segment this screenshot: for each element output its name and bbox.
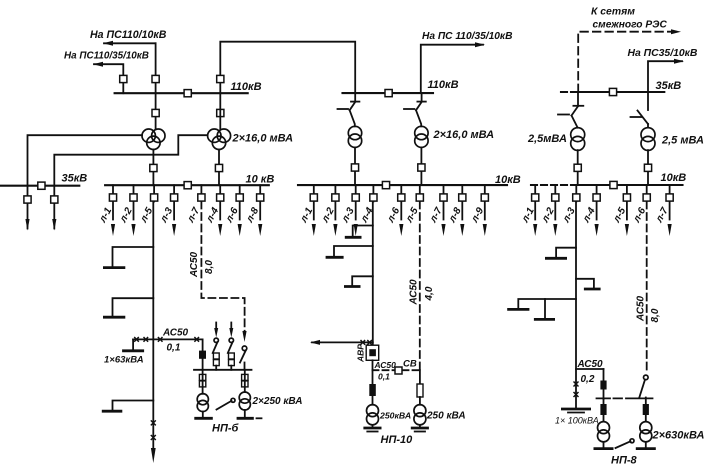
branch line АС50 0,1 (sub1) xyxy=(133,337,203,342)
110kV tie wire to substation 2 xyxy=(220,42,355,93)
feeder Л-7 (sub2) xyxy=(427,185,447,236)
square switch on СВ link xyxy=(395,367,402,374)
svg-text:На ПС110/10кВ: На ПС110/10кВ xyxy=(90,29,167,41)
label line to ПС110/10кВ xyxy=(90,29,167,41)
col A closed fuse xyxy=(199,351,206,359)
net label 10кВ (sub3) xyxy=(661,172,687,184)
НП-8 switch blade on Л-6 xyxy=(639,380,645,398)
col D wire to bar xyxy=(244,363,246,370)
feeder Л-8 (sub1) xyxy=(244,185,264,236)
dashed tie wire to adjacent network with right arrow xyxy=(578,29,681,92)
net label 10кВ (sub2) xyxy=(495,174,521,186)
wire T4 to 10kV bus xyxy=(420,147,422,185)
feeder Л-6 head (sub3, dashed) xyxy=(631,185,650,225)
net label 110кВ (sub2) xyxy=(428,79,459,91)
breaker square T1-10kV xyxy=(150,164,157,171)
value label АС50 (branch sub3) xyxy=(577,359,604,370)
svg-text:АС50: АС50 xyxy=(374,360,397,370)
35kV bus substation 3 (left part dashed) xyxy=(561,91,664,93)
node label НП-8 xyxy=(611,455,638,467)
НП-6 LV bar xyxy=(194,369,252,371)
svg-text:НП-8: НП-8 xyxy=(611,455,638,467)
disconnector QS below bus x=220.3 xyxy=(217,109,224,116)
svg-text:35кВ: 35кВ xyxy=(656,80,682,92)
svg-text:2×16,0 мВА: 2×16,0 мВА xyxy=(433,129,495,141)
wire СВ link to НП-10 right xyxy=(419,370,421,384)
svg-text:8,0: 8,0 xyxy=(650,308,661,322)
col D wire to bottom bar xyxy=(244,410,246,418)
transformer НП-6 D (2x250) xyxy=(239,392,250,410)
wire to НП-8 left transformer xyxy=(603,399,605,422)
tap 1 of Л-5 trunk xyxy=(103,247,153,268)
value label 2x250 кВА xyxy=(252,396,303,407)
col C wire to bar xyxy=(230,366,232,370)
transformer НП-10 right (250 кВА) xyxy=(414,405,426,425)
svg-text:2,5 мВА: 2,5 мВА xyxy=(661,135,704,147)
tap 1 of Л-4 trunk xyxy=(345,226,373,238)
value label 2x16,0 мВА (sub2) xyxy=(433,129,495,141)
tap 2 of Л-3 trunk (right) xyxy=(576,279,601,289)
col C incoming arrow xyxy=(229,323,233,338)
label line to ПС110/35/10кВ xyxy=(64,51,149,62)
НП-8 hinge circle on Л-6 xyxy=(644,375,649,380)
trunk end arrow (sub1) xyxy=(151,448,156,463)
value label АС50 (СВ link) xyxy=(374,360,397,370)
value label 1x100кВА xyxy=(555,416,599,426)
НП-6 cluster: incoming arrow col D xyxy=(242,331,246,342)
value label 2,5мВА (left) xyxy=(527,133,567,145)
value label АС50 (Л-6, rotated) xyxy=(636,295,647,322)
svg-text:АС50: АС50 xyxy=(189,251,200,278)
wire to ПС110/10кВ with left arrow xyxy=(103,41,156,46)
value label 0,1 (СВ link) xyxy=(378,372,390,382)
bus section switch on 10kV bus (sub3) xyxy=(610,181,617,188)
svg-text:смежного РЭС: смежного РЭС xyxy=(593,20,668,31)
35kV feeder arrow x=27.5 xyxy=(25,219,29,231)
transformer НП-6 A (2x250) xyxy=(197,394,208,412)
col D fuse below bar xyxy=(242,374,248,387)
wire to НП-10 left transformer xyxy=(372,396,374,405)
svg-text:2,5мВА: 2,5мВА xyxy=(527,133,567,145)
disconnector QS above bus x=155.6 xyxy=(152,75,159,82)
svg-text:0,1: 0,1 xyxy=(167,343,181,354)
feeder Л-9 (sub2) xyxy=(469,185,488,236)
feeder Л-4 trunk head (sub2) xyxy=(358,185,377,225)
value label АС50 (Л-7, rotated) xyxy=(189,251,200,278)
feeder Л-3 (sub1) xyxy=(158,185,178,236)
НП-8 LV bar xyxy=(597,397,653,399)
svg-text:НП-10: НП-10 xyxy=(381,434,414,446)
Л-4 trunk wire (sub2) xyxy=(372,202,374,346)
wire below АВР xyxy=(372,360,374,384)
value label 4,0 (Л-5, rotated) xyxy=(424,286,435,301)
value label 0,2 (branch sub3) xyxy=(581,374,595,385)
label К сетям смежного РЭС xyxy=(591,7,667,31)
feeder Л-6 (sub2) xyxy=(385,185,405,236)
svg-text:250кВА: 250кВА xyxy=(379,411,411,421)
svg-text:АС50: АС50 xyxy=(162,328,189,339)
tap 3 of Л-4 trunk xyxy=(344,276,373,286)
value label АС50 (branch sub1) xyxy=(162,328,189,339)
col B fuse xyxy=(213,353,219,366)
svg-text:СВ: СВ xyxy=(403,359,417,370)
net label 35кВ (sub3) xyxy=(656,80,682,92)
label line to ПС35/10кВ xyxy=(628,48,698,59)
tap to 1x63кВА transformer point xyxy=(122,339,144,350)
10kV bus substation 1 xyxy=(105,184,269,186)
wire branch corner into НП-8 left col xyxy=(603,369,605,399)
value label 2x630кВА xyxy=(652,430,705,442)
feeder Л-5 (sub3) xyxy=(611,185,631,236)
col A wire to transformer xyxy=(202,370,204,394)
svg-text:На ПС35/10кВ: На ПС35/10кВ xyxy=(628,48,698,59)
node label НП-10 xyxy=(381,434,414,446)
col C hinge circle xyxy=(229,338,233,342)
Л-6 dashed overhead line АС50 8,0 xyxy=(646,202,648,373)
tap 2 of Л-5 trunk xyxy=(103,298,153,317)
feeder Л-7 head (sub1, dashed line) xyxy=(185,185,205,225)
disconnector left leg (sub2) xyxy=(338,93,360,126)
svg-text:АС50: АС50 xyxy=(577,359,604,370)
АВР device box xyxy=(366,345,379,360)
closed fuse НП-8 right below bar xyxy=(643,404,649,415)
col B wire to bar xyxy=(215,366,217,370)
svg-text:110кВ: 110кВ xyxy=(428,79,459,91)
svg-text:10кВ: 10кВ xyxy=(495,174,521,186)
svg-text:8,0: 8,0 xyxy=(204,260,215,274)
breaker square T3 xyxy=(351,164,358,171)
svg-text:2×630кВА: 2×630кВА xyxy=(652,430,705,442)
col D bottom bar with dashed stub xyxy=(237,417,263,420)
wire T1 to 10kV bus xyxy=(152,150,154,186)
feeder Л-2 (sub3) xyxy=(539,185,558,236)
svg-text:0,2: 0,2 xyxy=(581,374,595,385)
feeder Л-3 trunk head (sub3) xyxy=(560,185,579,225)
feeder Л-5 trunk head (sub1) xyxy=(138,185,158,225)
feeder Л-6 (sub1) xyxy=(223,185,243,236)
svg-text:250 кВА: 250 кВА xyxy=(426,411,466,422)
feeder Л-3 (sub2) xyxy=(339,185,359,236)
transformer T3 (two-winding, sub2 left) xyxy=(348,126,361,147)
svg-text:НП-б: НП-б xyxy=(212,423,240,435)
feeder Л-2 (sub1) xyxy=(117,185,137,236)
svg-text:110кВ: 110кВ xyxy=(231,81,262,93)
wire riser x=220.3 down to transformer xyxy=(219,93,221,129)
label line to ПС 110/35/10кВ xyxy=(422,31,512,42)
10kV bus substation 3 (left part dashed) xyxy=(531,184,683,186)
closed fuse НП-8 left below bar xyxy=(600,404,606,415)
disconnector QS above bus x=220.3 xyxy=(217,75,224,82)
col C fuse xyxy=(229,353,235,366)
col A fuse below bar xyxy=(199,374,205,387)
wire to ground НП-10 right xyxy=(419,425,421,428)
wire to bottom bar НП-8 left xyxy=(603,442,605,448)
svg-text:2×16,0 мВА: 2×16,0 мВА xyxy=(232,133,294,145)
value label 2,5 мВА (right) xyxy=(661,135,704,147)
Л-5 dashed overhead line АС50 4,0 xyxy=(419,202,421,371)
svg-text:АС50: АС50 xyxy=(409,279,420,306)
col B incoming arrow xyxy=(214,323,218,338)
wire T5 to 10kV bus xyxy=(577,150,579,185)
col A wire to bottom bar xyxy=(202,412,204,418)
transformer T1 (three-winding) xyxy=(142,129,165,150)
x-marks on Л-3 trunk end xyxy=(574,382,579,398)
svg-text:АВР: АВР xyxy=(356,344,366,363)
svg-text:2×250 кВА: 2×250 кВА xyxy=(252,396,303,407)
35kV feeder switch x=27.5 xyxy=(24,196,31,203)
wire to НП-8 right transformer xyxy=(645,415,647,422)
bus section switch on 35kV bus xyxy=(38,182,45,189)
net label 110кВ xyxy=(231,81,262,93)
svg-text:1×63кВА: 1×63кВА xyxy=(104,355,144,366)
35kV feeder arrow x=54.3 xyxy=(52,219,56,231)
value label 2x16,0 мВА xyxy=(232,133,294,145)
feeder Л-5 head (sub2, dashed) xyxy=(403,185,423,225)
35kV winding wire of T1 xyxy=(28,135,143,228)
СВ dashed link xyxy=(373,369,420,371)
wire to ground НП-10 left xyxy=(372,425,374,428)
col D switch blade xyxy=(240,351,246,363)
value label 250 кВА (right) xyxy=(426,411,466,422)
wire riser x=155.6 (110kV) xyxy=(155,43,157,129)
bottom bar НП-8 right xyxy=(636,447,656,450)
value label АС50 (Л-5, rotated) xyxy=(409,279,420,306)
col C switch blade xyxy=(228,342,233,353)
feeder Л-1 (sub3) xyxy=(519,185,538,236)
feeder Л-7 (sub3) xyxy=(653,185,673,236)
transformer НП-8 right xyxy=(640,422,652,442)
disconnector QS on ПС110/35/10кВ feeder xyxy=(120,75,127,82)
tap 3 of Л-5 trunk xyxy=(102,401,154,412)
transformer НП-10 left (250кВА) xyxy=(367,405,379,425)
wire to bottom bar НП-8 right xyxy=(645,442,647,448)
label СВ xyxy=(403,359,417,370)
wire T2 to 10kV bus xyxy=(218,150,220,186)
value label 0,1 (branch sub1) xyxy=(167,343,181,354)
wire T6 to 10kV bus xyxy=(647,150,649,185)
35kV bus substation 1 xyxy=(0,185,79,187)
svg-text:10кВ: 10кВ xyxy=(661,172,687,184)
transformer T4 (two-winding, sub2 right) xyxy=(415,126,428,147)
wire to ПС 110/35/10кВ with right arrow xyxy=(421,42,485,93)
breaker square T4 xyxy=(418,164,425,171)
ground symbol НП-10 left xyxy=(363,428,381,432)
feeder Л-1 (sub1) xyxy=(97,185,117,236)
transformer T6 (sub3 right, 2,5 мВА) xyxy=(641,128,655,151)
open fuse НП-10 right xyxy=(417,384,423,397)
tie wire with left arrow at НП-10 xyxy=(310,340,373,345)
breaker square T6 xyxy=(644,164,651,171)
feeder Л-8 (sub2) xyxy=(446,185,465,236)
feeder Л-4 (sub1) xyxy=(204,185,224,236)
35kV feeder switch x=54.3 xyxy=(51,196,58,203)
110kV bus substation 1 xyxy=(115,92,248,94)
tap 1 of Л-3 trunk xyxy=(545,248,576,259)
closed fuse НП-10 left xyxy=(369,384,376,396)
wire T3 to 10kV bus xyxy=(354,147,356,185)
node label НП-б xyxy=(212,423,240,435)
НП-8 open point switch blade xyxy=(616,439,635,448)
value label 8,0 (Л-7, rotated) xyxy=(204,260,215,274)
svg-text:0,1: 0,1 xyxy=(378,372,390,382)
tap 3 of Л-3 trunk (left, double) xyxy=(507,299,576,319)
wire to ПС110/35/10кВ with left arrow xyxy=(93,62,123,93)
svg-text:4,0: 4,0 xyxy=(424,286,435,301)
branch АС50 0,2 xyxy=(576,368,604,370)
Л-3 trunk wire (sub3) xyxy=(575,202,577,408)
trunk end ground bar (1x100кВА) xyxy=(561,409,591,413)
value label 8,0 (Л-6, rotated) xyxy=(650,308,661,322)
Л-5 trunk wire (sub1) xyxy=(152,202,154,451)
ground symbol НП-10 right xyxy=(411,428,429,432)
col A bottom bar xyxy=(194,417,213,420)
bus section switch on 35kV bus (sub3) xyxy=(609,88,616,95)
label АВР (rotated) xyxy=(356,344,366,363)
col D wire to transformer xyxy=(244,370,246,392)
branch corner wire into col A xyxy=(202,339,204,369)
bottom bar НП-8 left xyxy=(594,447,614,450)
bus section switch on 110kV bus (sub2) xyxy=(385,90,392,97)
bus section switch on 10kV bus xyxy=(184,182,191,189)
closed fuse НП-8 left above bar xyxy=(600,381,606,390)
svg-text:К сетям: К сетям xyxy=(591,7,635,18)
transformer НП-8 left xyxy=(598,422,610,442)
svg-text:1× 100кВА: 1× 100кВА xyxy=(555,416,599,426)
110kV bus substation 2 xyxy=(343,92,434,94)
wire to НП-10 right transformer xyxy=(419,397,421,405)
sectionalizing x-mark on trunk 1 xyxy=(151,420,156,425)
svg-text:10 кВ: 10 кВ xyxy=(246,174,275,186)
col B hinge circle xyxy=(214,338,218,342)
net label 35кВ xyxy=(62,173,88,185)
35kV winding wire of T2 xyxy=(54,135,207,228)
feeder Л-1 (sub2) xyxy=(298,185,317,236)
disconnector right leg (sub2) xyxy=(404,93,426,126)
transformer T2 (three-winding) xyxy=(208,129,231,150)
value label 250кВА (left) xyxy=(379,411,411,421)
feeder Л-4 (sub3) xyxy=(580,185,600,236)
col B switch blade xyxy=(213,342,218,353)
disconnector left leg (sub3) xyxy=(558,92,583,128)
Л-7 dashed overhead line АС50 8,0 xyxy=(201,202,244,334)
disconnector right leg (sub3) xyxy=(631,92,649,128)
svg-text:На ПС 110/35/10кВ: На ПС 110/35/10кВ xyxy=(422,31,512,42)
breaker square T2-10kV xyxy=(215,164,222,171)
svg-text:На ПС110/35/10кВ: На ПС110/35/10кВ xyxy=(64,51,149,62)
transformer T5 (sub3 left, 2,5мВА) xyxy=(571,128,585,151)
disconnector QS below bus x=155.6 xyxy=(152,109,159,116)
wire Л-6 to НП-8 right col xyxy=(645,398,647,405)
10kV bus substation 2 xyxy=(298,184,507,186)
feeder Л-2 (sub2) xyxy=(319,185,339,236)
tap 2 of Л-4 trunk xyxy=(326,246,373,257)
svg-text:35кВ: 35кВ xyxy=(62,173,88,185)
wire to ПС35/10кВ with right arrow xyxy=(648,59,684,92)
value label 1x63кВА xyxy=(104,355,144,366)
bus section switch on 10kV bus (sub2) xyxy=(382,182,389,189)
net label 10 кВ xyxy=(246,174,275,186)
sectionalizing x-mark on trunk 2 xyxy=(151,435,156,440)
НП-6 open point switch blade xyxy=(217,398,236,409)
bus section switch on 110kV bus xyxy=(184,90,191,97)
breaker square T5 xyxy=(574,164,581,171)
col D hinge circle xyxy=(242,346,247,351)
svg-text:АС50: АС50 xyxy=(636,295,647,322)
